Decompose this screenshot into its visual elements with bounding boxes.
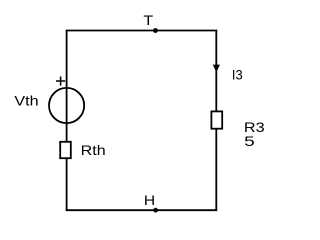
node H xyxy=(144,192,158,213)
svg-text:T: T xyxy=(143,12,153,28)
svg-text:Rth: Rth xyxy=(81,142,106,158)
wire top (node T to corners) xyxy=(66,30,218,32)
wire bottom (node H to corners) xyxy=(66,209,218,211)
svg-text:5: 5 xyxy=(244,133,255,149)
wire left xyxy=(66,31,68,211)
node T xyxy=(143,12,157,33)
svg-text:I3: I3 xyxy=(232,67,243,83)
svg-text:Vth: Vth xyxy=(14,93,38,109)
svg-text:H: H xyxy=(144,192,155,208)
resistor R3 xyxy=(211,111,265,148)
voltage source Vth xyxy=(14,76,84,123)
resistor Rth xyxy=(60,142,105,158)
current arrow I3 xyxy=(213,65,243,83)
wire right xyxy=(215,31,217,211)
